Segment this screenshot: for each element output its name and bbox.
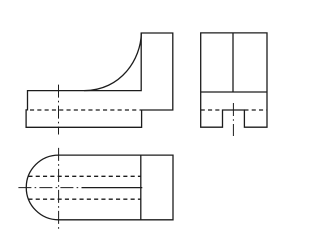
- side view horizontal divider: [201, 91, 267, 93]
- side view vertical edge: [232, 33, 234, 92]
- top view plate right edge: [140, 155, 142, 220]
- top view hidden line upper: [28, 175, 140, 177]
- top view hidden line lower: [28, 198, 140, 200]
- side view hidden line right: [244, 109, 267, 111]
- front view center line: [58, 85, 60, 135]
- top view horizontal center line: [18, 187, 80, 189]
- front view hidden line: [30, 109, 141, 111]
- top view outline: [26, 155, 173, 220]
- side view hidden line left: [201, 109, 223, 111]
- side view center line: [232, 103, 234, 136]
- side view outline: [201, 33, 267, 127]
- front view fillet curve: [84, 33, 141, 91]
- top view vertical center line: [58, 148, 60, 229]
- top view slot edge solid: [82, 187, 143, 189]
- front view outline: [26, 33, 173, 127]
